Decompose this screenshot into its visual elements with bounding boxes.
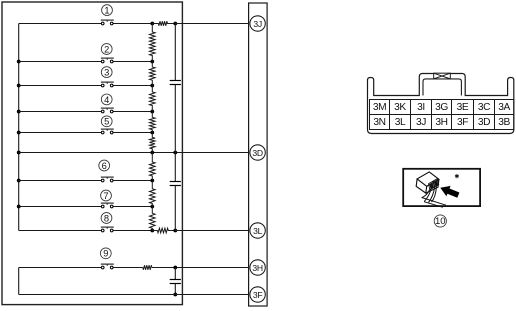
svg-text:4: 4 bbox=[104, 95, 109, 105]
junction bus row2 bbox=[17, 60, 21, 64]
switch SW3 bbox=[101, 82, 114, 87]
junction chain row2 bbox=[150, 60, 154, 64]
switch SW4 bbox=[101, 108, 114, 113]
pin 3F bbox=[250, 287, 265, 302]
svg-text:3B: 3B bbox=[498, 117, 510, 128]
wire capline upper bbox=[174, 24, 176, 81]
wire capline row9 lower bbox=[174, 284, 176, 295]
junction chain row1 bbox=[150, 22, 154, 26]
wire row 3D bus to pin 3D bbox=[19, 152, 250, 154]
wire row6 bus to SW6 bbox=[19, 180, 102, 182]
svg-text:6: 6 bbox=[102, 161, 107, 171]
connector strip bbox=[249, 3, 268, 306]
junction capline row 3F bbox=[173, 293, 177, 297]
pin 3H bbox=[250, 260, 265, 275]
wire row3 bus to SW3 bbox=[19, 85, 102, 87]
svg-text:3D: 3D bbox=[252, 148, 262, 158]
wire left bus vertical bbox=[18, 24, 20, 231]
resistor R10 horizontal row8 bbox=[152, 228, 175, 233]
wire row2 SW2 to chain bbox=[113, 61, 152, 63]
resistor R1 chain rows1-2 bbox=[150, 24, 156, 62]
svg-text:1: 1 bbox=[104, 6, 109, 16]
wire row4 bus to SW4 bbox=[19, 111, 102, 113]
svg-text:3F: 3F bbox=[253, 290, 262, 300]
wire capline mid bbox=[174, 85, 176, 182]
wire row6 SW6 to chain bbox=[113, 180, 152, 182]
wire row3 SW3 to chain bbox=[113, 85, 152, 87]
svg-text:5: 5 bbox=[104, 117, 109, 127]
junction chain row8 bbox=[150, 229, 154, 233]
label 8 bbox=[101, 213, 112, 224]
junction chain row 3D bbox=[150, 151, 154, 155]
label 2 bbox=[101, 44, 112, 55]
label 1 bbox=[102, 5, 113, 16]
svg-text:10: 10 bbox=[435, 216, 446, 227]
junction capline row1 bbox=[173, 22, 177, 26]
unit 10 pointer arrow bbox=[440, 186, 459, 198]
unit 10 relay body bbox=[416, 172, 439, 193]
svg-text:3G: 3G bbox=[435, 102, 448, 113]
svg-text:3N: 3N bbox=[373, 117, 385, 128]
unit 10 relay sockets bbox=[429, 179, 439, 190]
junction capline row9 bbox=[173, 266, 177, 270]
svg-text:3L: 3L bbox=[253, 226, 262, 236]
wire row8 bus to SW8 bbox=[19, 230, 102, 232]
wire row5 bus to SW5 bbox=[19, 132, 102, 134]
svg-text:3H: 3H bbox=[435, 117, 447, 128]
junction bus row6 bbox=[17, 179, 21, 183]
junction chain row5 bbox=[150, 131, 154, 135]
capacitor C3 bbox=[170, 280, 181, 284]
control unit outline box bbox=[2, 2, 182, 305]
pin 3D bbox=[250, 145, 265, 160]
wire row9 SW9 to resistor bbox=[113, 267, 143, 269]
svg-text:3E: 3E bbox=[457, 102, 469, 113]
pin 3J bbox=[250, 16, 265, 31]
capacitor C2 bbox=[170, 182, 181, 186]
svg-text:3M: 3M bbox=[373, 102, 386, 113]
resistor R2 chain rows2-3 bbox=[150, 62, 156, 86]
wire row5 SW5 to chain bbox=[113, 132, 152, 134]
junction bus row 3D bbox=[17, 151, 21, 155]
wire row2 bus to SW2 bbox=[19, 61, 102, 63]
junction chain row6 bbox=[150, 179, 154, 183]
connector latch inner outline bbox=[423, 79, 461, 96]
label 5 bbox=[101, 116, 112, 127]
svg-text:3H: 3H bbox=[252, 263, 262, 273]
resistor R5 chain rows5-3D bbox=[150, 133, 156, 153]
svg-text:3D: 3D bbox=[478, 117, 490, 128]
switch SW9 bbox=[101, 264, 114, 269]
wire row7 SW7 to chain bbox=[113, 206, 152, 208]
svg-text:8: 8 bbox=[104, 213, 109, 223]
svg-text:3L: 3L bbox=[395, 117, 406, 128]
label 6 bbox=[99, 160, 110, 171]
junction capline row8 bbox=[173, 229, 177, 233]
svg-text:7: 7 bbox=[103, 191, 108, 201]
connector latch lock mark bbox=[434, 73, 451, 79]
svg-text:3I: 3I bbox=[417, 102, 425, 113]
wire row 3F to pin 3F bbox=[19, 294, 250, 296]
unit 10 wires bbox=[422, 186, 446, 207]
resistor R6 chain rows3D-6 bbox=[150, 153, 156, 181]
svg-text:3K: 3K bbox=[394, 102, 406, 113]
label 9 bbox=[100, 248, 111, 259]
junction bus row4 bbox=[17, 110, 21, 114]
wire subbox left edge bbox=[18, 268, 20, 295]
wire row1 SW1 to chain bbox=[113, 23, 152, 25]
junction chain row4 bbox=[150, 110, 154, 114]
svg-text:3: 3 bbox=[104, 68, 109, 78]
label 4 bbox=[101, 94, 112, 105]
junction bus row5 bbox=[17, 131, 21, 135]
unit 10 asterisk bbox=[455, 174, 459, 178]
switch SW5 bbox=[101, 129, 114, 134]
resistor R8 chain rows7-8 bbox=[150, 207, 156, 231]
svg-text:3C: 3C bbox=[478, 102, 490, 113]
junction chain row7 bbox=[150, 205, 154, 209]
resistor R4 chain rows4-5 bbox=[150, 112, 156, 133]
pin 3L bbox=[250, 223, 265, 238]
label 7 bbox=[101, 190, 112, 201]
unit 10 frame bbox=[403, 169, 480, 206]
svg-text:2: 2 bbox=[104, 44, 109, 54]
svg-text:3F: 3F bbox=[457, 117, 468, 128]
wire row7 bus to SW7 bbox=[19, 206, 102, 208]
resistor R3 chain rows3-4 bbox=[150, 86, 156, 112]
switch SW8 bbox=[101, 227, 114, 232]
connector pin grid bbox=[370, 100, 514, 130]
switch SW1 bbox=[101, 20, 114, 25]
wire row4 SW4 to chain bbox=[113, 111, 152, 113]
wire capline row9 upper bbox=[174, 268, 176, 280]
wire row9 to SW9 bbox=[19, 267, 102, 269]
junction bus row7 bbox=[17, 205, 21, 209]
junction chain row3 bbox=[150, 84, 154, 88]
resistor R7 chain rows6-7 bbox=[150, 181, 156, 207]
label 3 bbox=[101, 67, 112, 78]
resistor R9 horizontal row1 bbox=[152, 21, 175, 26]
junction bus row3 bbox=[17, 84, 21, 88]
resistor R11 horizontal row9 bbox=[143, 265, 152, 270]
wire row1 bus to SW1 bbox=[19, 23, 102, 25]
switch SW6 bbox=[101, 177, 114, 182]
wire row1 to pin 3J bbox=[175, 23, 250, 25]
connector shell outline bbox=[368, 74, 514, 134]
capacitor C1 bbox=[170, 81, 181, 85]
wire row8 SW8 to chain bbox=[113, 230, 152, 232]
wire row9 to pin 3H bbox=[152, 267, 250, 269]
svg-text:3A: 3A bbox=[498, 102, 510, 113]
junction capline row 3D bbox=[173, 151, 177, 155]
switch SW2 bbox=[101, 58, 114, 63]
switch SW7 bbox=[101, 203, 114, 208]
wire row8 to pin 3L bbox=[175, 230, 250, 232]
wire capline lower bbox=[174, 186, 176, 231]
svg-text:3J: 3J bbox=[416, 117, 426, 128]
label 10 bbox=[434, 215, 446, 227]
svg-text:3J: 3J bbox=[253, 19, 261, 29]
svg-text:9: 9 bbox=[103, 249, 108, 259]
